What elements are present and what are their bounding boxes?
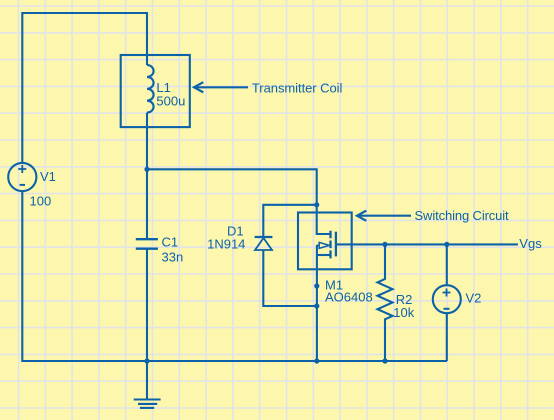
- svg-text:500u: 500u: [156, 94, 185, 109]
- svg-text:Switching Circuit: Switching Circuit: [415, 208, 510, 223]
- svg-text:Transmitter Coil: Transmitter Coil: [252, 81, 343, 96]
- svg-text:Vgs: Vgs: [519, 236, 542, 251]
- svg-text:1N914: 1N914: [207, 237, 245, 252]
- svg-text:V2: V2: [466, 291, 482, 306]
- svg-text:C1: C1: [162, 235, 179, 250]
- svg-text:AO6408: AO6408: [325, 289, 373, 304]
- svg-text:V1: V1: [40, 169, 56, 184]
- svg-text:100: 100: [30, 194, 52, 209]
- svg-text:10k: 10k: [393, 305, 414, 320]
- svg-text:33n: 33n: [162, 249, 184, 264]
